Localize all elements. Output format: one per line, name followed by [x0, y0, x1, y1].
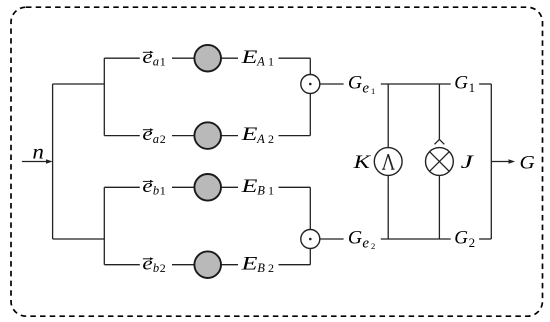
- top split horizontal wire: [53, 83, 105, 85]
- label node G2: [454, 228, 475, 251]
- svg-text:e: e: [142, 176, 152, 197]
- svg-text:G: G: [454, 73, 468, 94]
- upper secondary vertical wire: [103, 58, 105, 135]
- svg-text:2: 2: [160, 261, 166, 275]
- svg-text:2: 2: [469, 235, 476, 250]
- svg-text:e: e: [142, 253, 152, 274]
- bottom bus wire Ge2 to G2: [381, 238, 451, 240]
- svg-text:1: 1: [469, 80, 476, 95]
- wire K drop top: [387, 84, 389, 148]
- svg-text:A: A: [256, 55, 265, 69]
- wire row eb1 segments: [104, 186, 140, 188]
- svg-text:2: 2: [371, 241, 375, 251]
- label vec e_a1: [142, 47, 165, 69]
- wire lower dot-node to Ge2 label: [320, 238, 344, 240]
- gray element circle a1: [194, 45, 221, 72]
- corner wire EB1 down to lower dot-node: [309, 187, 311, 229]
- svg-text:G: G: [520, 152, 536, 173]
- wire G2 to right bus corner: [479, 238, 491, 240]
- svg-text:a: a: [153, 132, 159, 146]
- bottom split horizontal wire: [53, 238, 105, 240]
- svg-text:E: E: [240, 253, 258, 274]
- wire row ea1 segments: [104, 57, 140, 59]
- svg-text:e: e: [362, 236, 369, 252]
- svg-text:b: b: [153, 184, 159, 198]
- svg-text:2: 2: [268, 261, 274, 275]
- label node G_e2: [348, 228, 375, 252]
- wire J drop bottom: [438, 175, 440, 239]
- input arrow n shaft: [22, 161, 47, 163]
- svg-text:E: E: [240, 176, 258, 197]
- open arrowhead above J: [435, 139, 445, 144]
- wire row ea2 segments: [104, 135, 140, 137]
- label E_B2: [240, 253, 274, 275]
- label E_B1: [240, 176, 274, 198]
- svg-text:G: G: [348, 73, 363, 94]
- top bus wire Ge1 to G1: [381, 83, 451, 85]
- svg-text:1: 1: [160, 184, 166, 198]
- svg-text:1: 1: [268, 184, 274, 198]
- trunk vertical wire: [52, 84, 54, 239]
- input arrowhead (n): [46, 159, 53, 163]
- corner wire EA1 down to upper dot-node: [309, 58, 311, 74]
- label node G1: [454, 73, 475, 96]
- wire row eb2 segments: [104, 264, 140, 266]
- svg-text:1: 1: [268, 55, 274, 69]
- gray element circle b1: [194, 174, 221, 201]
- corner wire EB2 up to lower dot-node: [309, 249, 311, 265]
- svg-text:E: E: [240, 47, 258, 68]
- svg-text:1: 1: [160, 55, 166, 69]
- label vec e_a2: [142, 124, 165, 146]
- gray element circle a2: [194, 122, 221, 149]
- label vec e_b1: [142, 176, 165, 198]
- svg-text:G: G: [454, 228, 468, 249]
- svg-text:A: A: [256, 132, 265, 146]
- output arrowhead (G): [509, 159, 516, 163]
- svg-text:1: 1: [371, 86, 375, 96]
- mixer J (circled cross): [426, 148, 454, 176]
- svg-text:a: a: [153, 55, 159, 69]
- svg-text:e: e: [142, 124, 152, 145]
- wire K drop bottom: [387, 175, 389, 239]
- wire J drop top with open arrowhead: [438, 84, 440, 139]
- upper dot-product node (circle with center dot): [301, 75, 320, 94]
- svg-text:2: 2: [268, 132, 274, 146]
- wire G1 to right bus corner: [479, 83, 491, 85]
- svg-text:n: n: [32, 139, 44, 163]
- svg-text:e: e: [142, 47, 152, 68]
- svg-text:G: G: [348, 228, 363, 249]
- svg-text:B: B: [257, 261, 265, 275]
- label node G_e1: [348, 73, 375, 97]
- svg-text:E: E: [240, 124, 258, 145]
- label E_A2: [240, 124, 274, 146]
- label vec e_b2: [142, 253, 165, 275]
- svg-text:K: K: [352, 152, 371, 173]
- svg-text:2: 2: [160, 132, 166, 146]
- right bus vertical wire: [490, 84, 492, 239]
- source K (circle with Lambda): [374, 148, 402, 176]
- svg-text:B: B: [257, 184, 265, 198]
- gray element circle b2: [194, 251, 221, 278]
- label E_A1: [240, 47, 274, 69]
- svg-text:e: e: [362, 81, 369, 97]
- lower dot-product node (circle with center dot): [301, 230, 320, 249]
- output arrow G shaft: [491, 161, 509, 163]
- corner wire EA2 up to upper dot-node: [309, 94, 311, 136]
- lower secondary vertical wire: [103, 187, 105, 264]
- svg-text:b: b: [153, 261, 159, 275]
- wire upper dot-node to Ge1 label: [320, 83, 344, 85]
